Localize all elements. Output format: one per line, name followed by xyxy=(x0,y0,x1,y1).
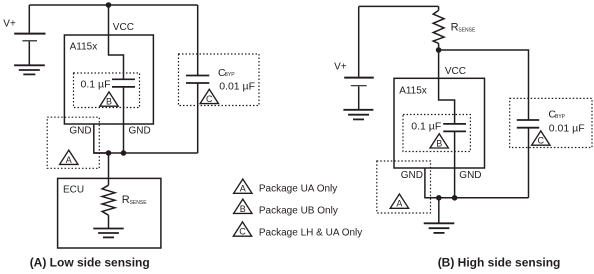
wire GND pin left xyxy=(94,124,109,153)
svg-text:A: A xyxy=(240,184,246,194)
node gnd junction 2 right xyxy=(452,195,458,201)
marker dashed box around GND pin1 left xyxy=(47,117,99,168)
svg-text:GND: GND xyxy=(69,125,91,136)
svg-text:BYP: BYP xyxy=(555,114,566,120)
marker triangle C right xyxy=(532,131,550,146)
wire gnd rail right xyxy=(425,197,529,199)
label Cbyp right xyxy=(548,109,565,121)
capacitor C1 0.1uF dashed outline left xyxy=(74,73,140,108)
legend marker triangle A xyxy=(234,179,252,194)
ground ECU left xyxy=(93,229,123,238)
svg-text:GND: GND xyxy=(129,125,151,136)
svg-text:Package LH & UA Only: Package LH & UA Only xyxy=(259,228,362,239)
node gnd junction 2 left xyxy=(121,150,127,156)
marker triangle B right xyxy=(430,134,448,149)
svg-text:(A) Low side sensing: (A) Low side sensing xyxy=(30,255,150,269)
node VCC junction left xyxy=(106,2,112,8)
svg-text:0.01 µF: 0.01 µF xyxy=(549,123,585,135)
svg-text:V+: V+ xyxy=(3,19,16,30)
svg-text:C: C xyxy=(538,136,545,146)
wire top rail right circuit xyxy=(359,5,439,7)
svg-text:A115x: A115x xyxy=(70,42,98,53)
node Rsense junction right xyxy=(436,47,442,53)
svg-text:0.1 µF: 0.1 µF xyxy=(81,79,111,91)
svg-text:SENSE: SENSE xyxy=(130,200,148,206)
node gnd junction 1 left xyxy=(106,150,112,156)
svg-text:V+: V+ xyxy=(334,61,347,72)
svg-text:B: B xyxy=(436,138,442,148)
legend marker triangle C xyxy=(233,222,251,237)
svg-text:R: R xyxy=(122,194,130,206)
svg-text:Package UB Only: Package UB Only xyxy=(259,205,338,216)
resistor RSENSE right xyxy=(433,6,444,50)
svg-text:ECU: ECU xyxy=(63,185,84,196)
wire top rail left circuit xyxy=(29,4,197,6)
wire Cbyp bottom right xyxy=(528,128,530,198)
marker triangle A left xyxy=(60,150,78,165)
wire to Cbyp right xyxy=(439,50,529,120)
svg-text:GND: GND xyxy=(459,170,481,181)
wire VCC pin left xyxy=(109,5,124,79)
capacitor Cbyp plates left xyxy=(186,76,209,84)
wire VCC pin right xyxy=(439,50,455,124)
svg-text:SENSE: SENSE xyxy=(458,28,476,34)
label Cbyp left xyxy=(218,67,235,79)
wire gnd rail left xyxy=(94,152,198,154)
resistor RSENSE left xyxy=(102,153,115,229)
svg-text:A: A xyxy=(396,199,402,209)
svg-text:0.1 µF: 0.1 µF xyxy=(411,120,441,132)
battery V+ right xyxy=(344,6,374,109)
wire cap C1 to gnd rail left xyxy=(123,87,125,153)
capacitor Cbyp dashed box left xyxy=(179,54,260,106)
svg-text:B: B xyxy=(240,204,246,214)
marker triangle C left xyxy=(200,89,218,104)
svg-text:0.01 µF: 0.01 µF xyxy=(219,81,255,93)
capacitor C2 0.1uF dashed outline right xyxy=(403,115,470,152)
svg-text:(B) High side sensing: (B) High side sensing xyxy=(438,255,561,269)
ECU box left xyxy=(58,178,161,248)
capacitor Cbyp plates right xyxy=(517,120,539,128)
svg-text:BYP: BYP xyxy=(225,72,236,78)
svg-text:VCC: VCC xyxy=(113,22,134,33)
svg-text:C: C xyxy=(206,94,213,104)
ground right circuit xyxy=(424,198,455,233)
svg-text:B: B xyxy=(106,97,112,107)
svg-text:R: R xyxy=(451,22,459,34)
marker dashed box around GND pin1 right xyxy=(377,161,431,213)
IC U1 A115x current sensor box left xyxy=(64,35,153,124)
svg-text:Package UA Only: Package UA Only xyxy=(259,184,337,195)
value label RSENSE right xyxy=(451,22,476,34)
value label RSENSE left xyxy=(122,194,147,206)
marker triangle B left xyxy=(100,92,118,107)
capacitor Cbyp dashed box right xyxy=(510,98,592,147)
wire GND pin right xyxy=(425,168,439,198)
capacitor C2 plates right xyxy=(443,124,466,131)
node gnd junction 1 right xyxy=(436,195,442,201)
svg-text:C: C xyxy=(239,227,246,237)
ground V+ right xyxy=(343,110,373,120)
ground V+ left xyxy=(14,65,45,74)
wire cap C2 to gnd rail right xyxy=(454,131,456,197)
svg-text:A115x: A115x xyxy=(399,86,427,97)
wire Cbyp branch left xyxy=(197,5,199,76)
battery V+ left xyxy=(14,5,45,65)
capacitor C1 plates left xyxy=(112,79,135,87)
svg-text:VCC: VCC xyxy=(445,66,466,77)
IC U2 A115x current sensor box right xyxy=(394,78,485,168)
marker triangle A right xyxy=(390,194,408,209)
svg-text:GND: GND xyxy=(401,170,423,181)
svg-text:A: A xyxy=(66,155,72,165)
wire Cbyp bottom left xyxy=(197,83,199,153)
legend marker triangle B xyxy=(234,199,252,214)
